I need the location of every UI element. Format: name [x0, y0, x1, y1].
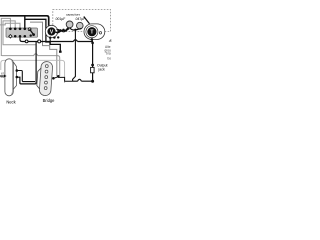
svg-text:bo: bo	[108, 57, 112, 61]
svg-text:jack: jack	[98, 67, 105, 71]
svg-text:.001µF: .001µF	[55, 17, 66, 21]
svg-text:T: T	[90, 30, 93, 36]
svg-text:Bridge: Bridge	[43, 98, 56, 103]
svg-text:ed: ed	[1, 75, 5, 79]
svg-text:Neck: Neck	[6, 100, 16, 105]
svg-text:.047µF: .047µF	[75, 17, 86, 21]
svg-text:bra: bra	[106, 52, 111, 56]
